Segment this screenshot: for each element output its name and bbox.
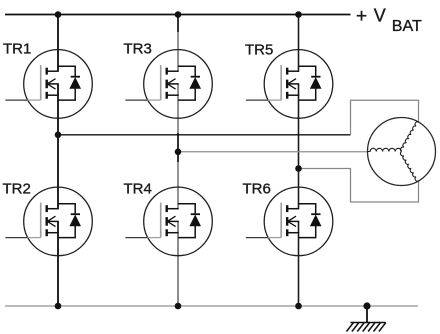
- motor winding left: [368, 148, 402, 151]
- node top rail TR5: [295, 11, 302, 18]
- wire phase C horizontal and drop: [299, 169, 419, 203]
- wire phase B horizontal: [178, 151, 367, 153]
- wire source rail TR4 to ground rail: [177, 221, 179, 306]
- transistor TR4: [125, 187, 212, 256]
- svg-text:V: V: [374, 6, 386, 26]
- ground stub: [366, 306, 368, 323]
- wire phase B node segment: [177, 133, 179, 162]
- wire phase A riser: [351, 100, 419, 135]
- node ground tap: [363, 302, 370, 309]
- wire source rail TR2 to ground rail: [57, 221, 59, 306]
- node ground rail TR4: [175, 303, 182, 310]
- svg-text:TR6: TR6: [243, 181, 271, 198]
- transistor TR3: [125, 50, 212, 119]
- ground rail: [5, 305, 418, 307]
- transistor TR2: [5, 187, 92, 256]
- wire source rail TR6 to ground rail: [298, 221, 300, 306]
- node top rail TR3: [175, 11, 182, 18]
- node phase B junction: [175, 149, 182, 156]
- transistor TR6: [246, 187, 333, 256]
- wire drain rail TR1: [57, 15, 59, 72]
- wire drain rail TR3 upper: [177, 15, 179, 33]
- svg-text:BAT: BAT: [392, 18, 422, 35]
- wire source rail TR1 to drain TR2: [57, 84, 59, 209]
- svg-text:TR4: TR4: [124, 181, 152, 198]
- node phase C junction: [295, 165, 302, 172]
- transistor TR1: [5, 50, 92, 119]
- node top rail TR1: [55, 11, 62, 18]
- wire phase A horizontal: [58, 134, 351, 136]
- +VBAT top rail: [5, 14, 351, 16]
- ground: [347, 323, 386, 332]
- transistor TR5: [246, 50, 333, 119]
- wire phase B to drain TR4: [177, 162, 179, 209]
- node ground rail TR2: [55, 303, 62, 310]
- node ground rail TR6: [295, 303, 302, 310]
- motor winding upper right: [401, 122, 419, 152]
- svg-text:TR5: TR5: [245, 42, 273, 59]
- wire source rail TR5 to drain TR6: [298, 84, 300, 209]
- node phase A junction: [55, 132, 62, 139]
- wire drain rail TR3 lower: [177, 32, 179, 71]
- svg-text:TR1: TR1: [3, 41, 31, 58]
- motor M1 body: [368, 118, 436, 186]
- motor winding lower right: [401, 152, 419, 182]
- svg-text:TR3: TR3: [124, 41, 152, 58]
- wire source rail TR3 to phase B: [177, 84, 179, 133]
- svg-text:+: +: [356, 6, 367, 27]
- wire drain rail TR5: [298, 15, 300, 72]
- svg-text:TR2: TR2: [3, 181, 31, 198]
